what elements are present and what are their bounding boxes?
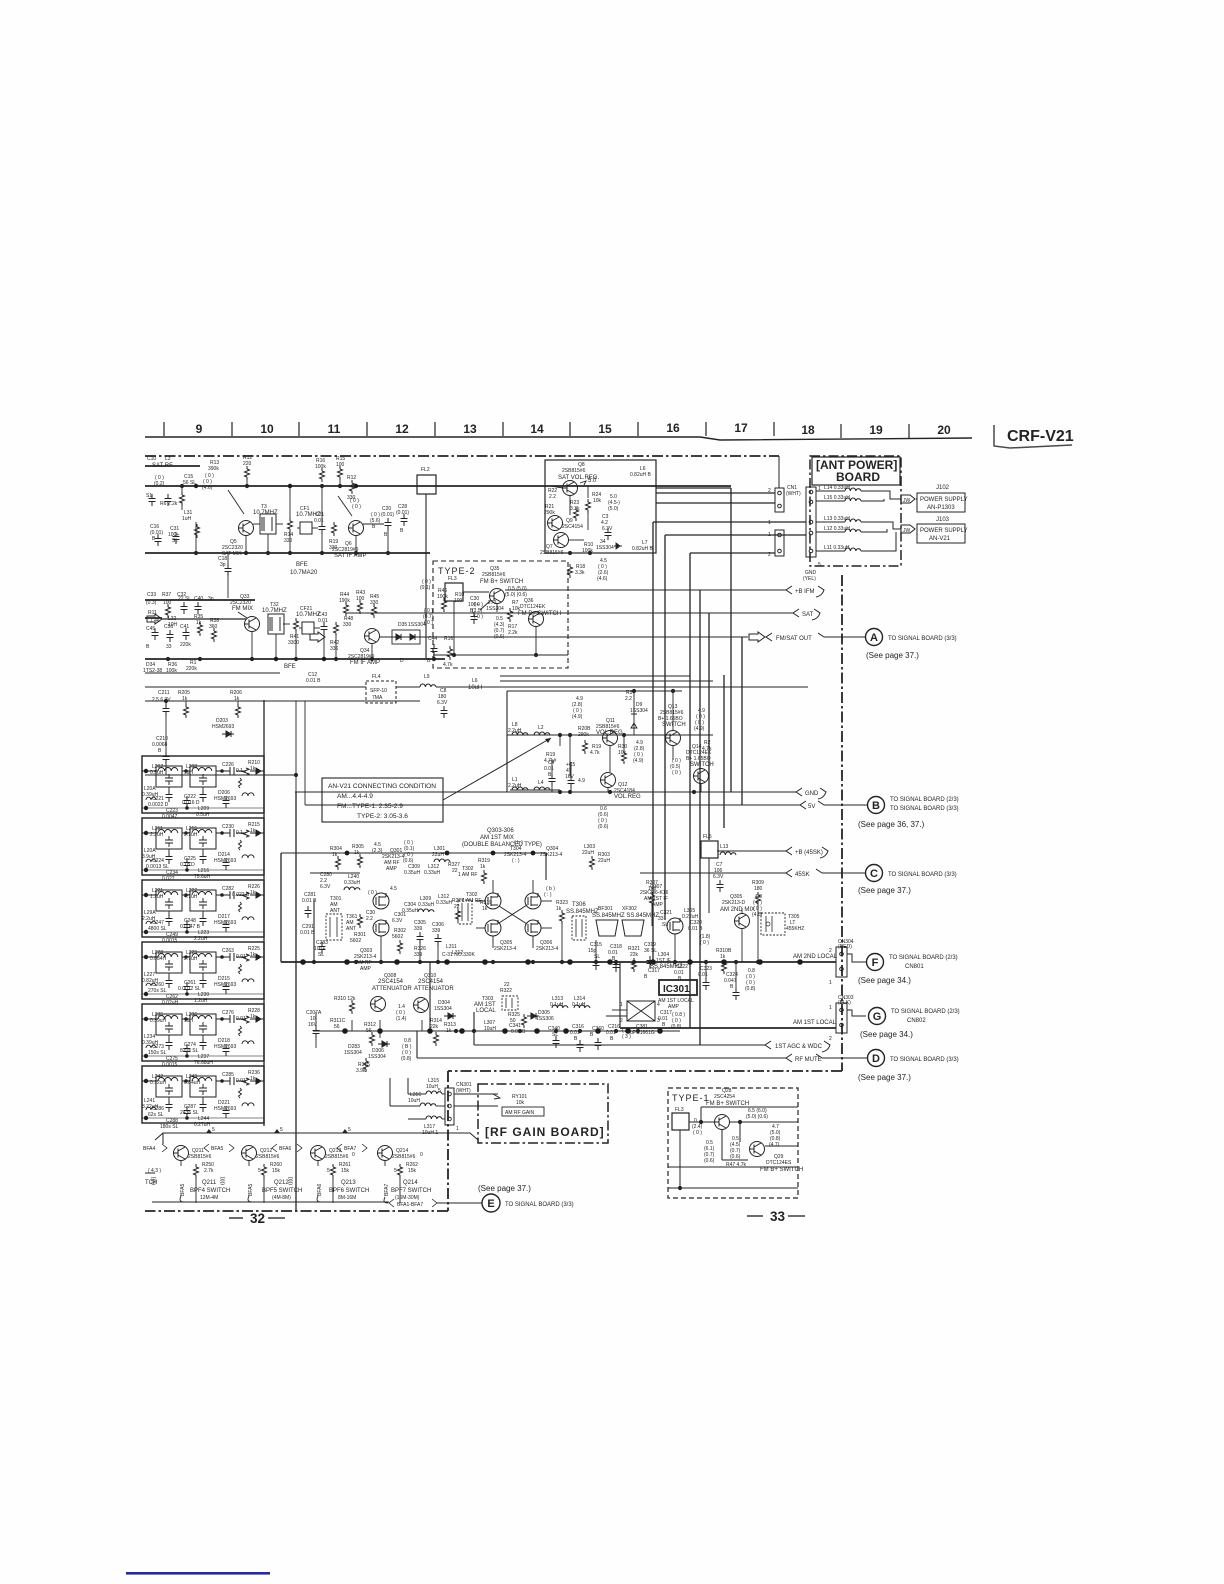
- filter block L221/L222: [142, 880, 264, 937]
- +B (45SK) / 45SK + circle C: [640, 847, 865, 877]
- svg-text:1k: 1k: [250, 766, 256, 772]
- svg-text:( 0 ): ( 0 ): [672, 770, 681, 776]
- svg-text:(((((: (((((: [288, 1176, 294, 1185]
- inductors L315 L316 L317: [426, 1091, 442, 1094]
- svg-text:R37: R37: [162, 592, 171, 598]
- node E to signal board: [482, 1194, 500, 1212]
- svg-text:339: 339: [414, 952, 423, 958]
- svg-text:0.27uH: 0.27uH: [194, 1122, 211, 1128]
- svg-text:SWITCH: SWITCH: [662, 722, 686, 728]
- svg-text:1k: 1k: [332, 852, 338, 858]
- svg-text:56: 56: [334, 1024, 340, 1030]
- svg-text:12: 12: [395, 422, 409, 436]
- svg-text:33: 33: [770, 1209, 786, 1224]
- svg-text:L2: L2: [538, 725, 544, 731]
- svg-text:SFP-10: SFP-10: [370, 688, 387, 694]
- svg-text:( b ): ( b ): [514, 840, 523, 846]
- svg-text:TO SIGNAL BOARD (3/3): TO SIGNAL BOARD (3/3): [505, 1202, 574, 1208]
- svg-text:11: 11: [328, 422, 341, 436]
- arrow plugs: [901, 495, 915, 533]
- svg-text:SAT RF: SAT RF: [152, 463, 173, 469]
- step vertical: [447, 1071, 449, 1211]
- node B to signal board: [868, 797, 885, 814]
- svg-text:A: A: [870, 632, 878, 644]
- svg-text:(See page 37.): (See page 37.): [478, 1184, 531, 1193]
- svg-text:HSM2693: HSM2693: [214, 796, 236, 802]
- svg-text:C211: C211: [158, 690, 170, 696]
- node A to signal board: [866, 629, 883, 646]
- transistor Q35 FM B+ SWITCH: [490, 589, 505, 604]
- svg-text:1SS304: 1SS304: [344, 1050, 362, 1056]
- svg-text:AMP: AMP: [360, 966, 372, 972]
- svg-text:10uH: 10uH: [408, 1098, 420, 1104]
- svg-text:2SB815#6: 2SB815#6: [482, 572, 506, 578]
- svg-text:0.0015: 0.0015: [162, 1062, 178, 1068]
- FET Q307 AM 1ST IF AMP: [667, 918, 683, 934]
- svg-text:BFA4: BFA4: [143, 1146, 155, 1152]
- node G to signal board: [869, 1008, 886, 1025]
- svg-text:CN801: CN801: [905, 964, 924, 970]
- svg-text:L14 0.33uH: L14 0.33uH: [824, 485, 850, 491]
- svg-text:Q211: Q211: [202, 1180, 217, 1186]
- svg-text:D: D: [400, 658, 404, 664]
- svg-text:9: 9: [196, 422, 203, 436]
- POWER SUPPLY AN-P1303 box J102: [917, 493, 965, 512]
- svg-text:100: 100: [336, 462, 345, 468]
- svg-text:R322: R322: [500, 988, 512, 994]
- filter FL3 (TYPE-1): [672, 1113, 689, 1130]
- svg-text:2SC4254: 2SC4254: [714, 1094, 735, 1100]
- svg-text:AM 1ST MIX: AM 1ST MIX: [480, 835, 514, 841]
- svg-text:J103: J103: [936, 517, 950, 523]
- svg-text:TYPE-2: 3.05-3.6: TYPE-2: 3.05-3.6: [357, 813, 408, 820]
- svg-text:0.01: 0.01: [314, 518, 324, 524]
- svg-text:0.35uH: 0.35uH: [402, 908, 419, 914]
- svg-text:BPF5 SWITCH: BPF5 SWITCH: [262, 1188, 302, 1194]
- svg-text:0.39uH: 0.39uH: [142, 792, 159, 798]
- svg-text:BPF6 SWITCH: BPF6 SWITCH: [329, 1188, 369, 1194]
- filter block L207/L208: [142, 756, 264, 813]
- svg-text:2.7uH: 2.7uH: [184, 956, 198, 962]
- svg-text:360: 360: [209, 624, 218, 630]
- svg-text:4.7k: 4.7k: [702, 746, 712, 752]
- svg-text:1SS304: 1SS304: [630, 708, 648, 714]
- svg-text:AN-V21: AN-V21: [929, 536, 951, 542]
- svg-text:56: 56: [366, 1028, 372, 1034]
- svg-text:HSM2693: HSM2693: [214, 1044, 236, 1050]
- svg-text:0: 0: [420, 1152, 423, 1158]
- svg-text:2: 2: [620, 1018, 623, 1024]
- svg-text:AM 2ND LOCAL: AM 2ND LOCAL: [793, 954, 838, 960]
- svg-text:FL4: FL4: [372, 674, 381, 680]
- svg-text:(4.6): (4.6): [202, 485, 213, 491]
- svg-text:AN-P1303: AN-P1303: [927, 505, 955, 511]
- svg-text:AM 1ST LOCAL: AM 1ST LOCAL: [793, 1020, 837, 1026]
- R323 T306: [560, 910, 565, 924]
- svg-text:HSM2693: HSM2693: [214, 1106, 236, 1112]
- transistor Q6 SAT IF AMP: [349, 521, 364, 536]
- svg-text:1k: 1k: [250, 828, 256, 834]
- svg-text:FL5: FL5: [703, 834, 712, 840]
- inductors L8 L2: [512, 732, 528, 735]
- junction dot bus: [503, 1029, 507, 1033]
- svg-text:SAT IF AMP: SAT IF AMP: [334, 553, 366, 559]
- svg-text:13: 13: [463, 422, 477, 436]
- svg-text:33: 33: [166, 644, 172, 650]
- svg-text:2436 SL: 2436 SL: [180, 1110, 199, 1116]
- svg-text:BFA1-BFA7: BFA1-BFA7: [397, 1202, 423, 1208]
- svg-text:(WHT): (WHT): [786, 491, 801, 497]
- svg-text:330: 330: [343, 622, 352, 628]
- FM/SAT OUT with open arrow and circle A: [380, 632, 866, 642]
- svg-text:XF302: XF302: [622, 906, 637, 912]
- svg-text:1.2uH: 1.2uH: [150, 894, 164, 900]
- svg-text:3300: 3300: [288, 640, 299, 646]
- svg-text:FM...TYPE-1: 2.35-2.9: FM...TYPE-1: 2.35-2.9: [337, 803, 403, 810]
- svg-text:5: 5: [212, 1127, 215, 1133]
- svg-text:1: 1: [456, 1126, 459, 1132]
- svg-text:190k: 190k: [339, 598, 350, 604]
- svg-text:TYPE-1: TYPE-1: [672, 1093, 710, 1103]
- svg-text:C-31 NO.330K: C-31 NO.330K: [442, 952, 475, 958]
- svg-text:22: 22: [452, 868, 458, 874]
- svg-text:6.3V: 6.3V: [437, 700, 448, 706]
- svg-text:RF MUTE: RF MUTE: [795, 1057, 822, 1063]
- svg-text:1SS304: 1SS304: [596, 545, 614, 551]
- svg-text:6.3V: 6.3V: [392, 918, 403, 924]
- bottom right border: [448, 1070, 842, 1072]
- svg-text:2SK213-4: 2SK213-4: [494, 946, 516, 952]
- svg-text:2.2: 2.2: [366, 916, 373, 922]
- svg-text:FM MIX: FM MIX: [232, 606, 253, 612]
- svg-text:BFA5: BFA5: [248, 1184, 254, 1196]
- AM 2ND LOCAL rail + CN304 + circle F: [281, 961, 836, 963]
- svg-text:19: 19: [869, 423, 883, 437]
- svg-text:( : ): ( : ): [544, 892, 552, 898]
- svg-text:2SB815#6: 2SB815#6: [256, 1154, 280, 1160]
- svg-text:0.39uH: 0.39uH: [150, 1018, 167, 1024]
- transistor Q14 DTC124EK: [694, 769, 709, 784]
- svg-text:B: B: [872, 800, 880, 812]
- svg-text:2.7uH: 2.7uH: [184, 832, 198, 838]
- svg-text:D: D: [872, 1053, 880, 1065]
- svg-text:1 AM RF: 1 AM RF: [458, 872, 477, 878]
- svg-text:(4.6): (4.6): [597, 576, 608, 582]
- svg-text:BFA6: BFA6: [317, 1184, 323, 1196]
- svg-text:( 0 ): ( 0 ): [700, 940, 709, 946]
- svg-text:0.0047: 0.0047: [162, 814, 178, 820]
- svg-text:BFA6: BFA6: [279, 1146, 291, 1152]
- svg-text:1k: 1k: [182, 696, 188, 702]
- svg-text:0.022 B: 0.022 B: [232, 892, 250, 898]
- svg-text:4.7k#: 4.7k#: [544, 758, 556, 764]
- svg-text:TO SIGNAL BOARD (2/3): TO SIGNAL BOARD (2/3): [889, 955, 958, 961]
- svg-text:L4: L4: [538, 780, 544, 786]
- transistor Q11 VOL.REG: [603, 731, 618, 746]
- svg-text:4.7k: 4.7k: [590, 750, 600, 756]
- FET Q304/Q305 AM 1ST MIX pair: [485, 893, 501, 909]
- svg-text:7.4k: 7.4k: [150, 618, 160, 624]
- svg-text:HSM2693: HSM2693: [212, 724, 234, 730]
- svg-text:15: 15: [598, 422, 612, 436]
- IC301 AM 1ST LOCAL AMP: [659, 980, 697, 995]
- svg-text:0.01 B: 0.01 B: [306, 678, 321, 684]
- svg-text:1k: 1k: [234, 696, 240, 702]
- svg-text:1k: 1k: [250, 890, 256, 896]
- svg-text:FM IF AMP: FM IF AMP: [350, 660, 380, 666]
- diode D35 1SS304: [392, 634, 404, 640]
- svg-text:IC301: IC301: [663, 984, 690, 995]
- svg-text:L6: L6: [472, 678, 478, 684]
- inductor L11 0.33uH: [845, 548, 861, 551]
- svg-text:Q212: Q212: [274, 1180, 289, 1186]
- svg-text:390k: 390k: [208, 466, 219, 472]
- verticals joining rails: [182, 478, 388, 553]
- svg-text:AMP: AMP: [652, 902, 664, 908]
- ceramic filter XF302 SS.845MHz: [622, 920, 644, 936]
- frame rails: [281, 853, 680, 1058]
- node D to signal board: [868, 1050, 885, 1067]
- svg-text:2: 2: [829, 1036, 832, 1042]
- svg-text:J102: J102: [936, 485, 950, 491]
- svg-text:C230: C230: [222, 824, 234, 830]
- svg-text:220k: 220k: [180, 642, 191, 648]
- inductors L13 L12 0.33uH: [845, 519, 861, 522]
- RF MUTE + circle D: [417, 1054, 867, 1062]
- svg-text:(16M-30M): (16M-30M): [395, 1195, 420, 1201]
- svg-text:0.084H: 0.084H: [150, 956, 167, 962]
- svg-text:4.7uH: 4.7uH: [184, 894, 198, 900]
- svg-text:0.1: 0.1: [236, 830, 243, 836]
- svg-text:12M-4M: 12M-4M: [200, 1195, 218, 1201]
- svg-text:4800 SL: 4800 SL: [148, 926, 167, 932]
- svg-text:BPF7 SWITCH: BPF7 SWITCH: [391, 1188, 431, 1194]
- connector CN301 (WHT): [445, 1088, 454, 1125]
- svg-text:L13: L13: [720, 844, 729, 850]
- inductors L14 L15 0.33uH: [845, 488, 861, 491]
- svg-text:62s SL: 62s SL: [148, 1112, 164, 1118]
- svg-text:FM/SAT OUT: FM/SAT OUT: [776, 636, 812, 642]
- svg-text:10H: 10H: [168, 622, 178, 628]
- svg-text:(0.6): (0.6): [730, 1154, 741, 1160]
- svg-text:0.01: 0.01: [698, 972, 708, 978]
- transistors Q211 Q212 BPF switches: [174, 1146, 189, 1161]
- RF GAIN BOARD outline: [478, 1084, 608, 1143]
- svg-text:0.82uH: 0.82uH: [142, 978, 159, 984]
- transformer T302 dashed: [458, 900, 472, 924]
- transistor Q9 2SC4154: [548, 516, 563, 531]
- svg-text:TO SIGNAL BOARD (2/3): TO SIGNAL BOARD (2/3): [890, 797, 959, 803]
- svg-text:uPC1661G: uPC1661G: [630, 1030, 655, 1036]
- svg-text:( 0 ): ( 0 ): [474, 614, 483, 620]
- svg-text:5602: 5602: [350, 938, 361, 944]
- svg-text:1k: 1k: [480, 864, 486, 870]
- svg-text:SWITCH: SWITCH: [690, 762, 714, 768]
- svg-text:1k: 1k: [250, 952, 256, 958]
- svg-text:SS.845MHZ SS.845MHZ: SS.845MHZ SS.845MHZ: [592, 913, 659, 919]
- svg-text:5: 5: [438, 1088, 441, 1094]
- svg-text:0.33uH: 0.33uH: [436, 900, 453, 906]
- svg-text:C10: C10: [147, 456, 156, 462]
- svg-text:1uH: 1uH: [184, 1018, 194, 1024]
- filter block L228/L229: [142, 942, 264, 999]
- transistor Q8 SAT VOL.REG: [563, 481, 578, 496]
- svg-text:180s SL: 180s SL: [160, 1124, 179, 1130]
- svg-text:100: 100: [356, 596, 365, 602]
- svg-text:(4.9): (4.9): [694, 726, 705, 732]
- svg-text:L15 0.33uH: L15 0.33uH: [824, 495, 850, 501]
- board outline dash-dot: [810, 456, 901, 566]
- connector CN303 (BLK): [836, 1003, 847, 1033]
- svg-text:C45: C45: [146, 626, 155, 632]
- svg-text:20: 20: [937, 423, 951, 437]
- svg-text:C276: C276: [222, 1010, 234, 1016]
- svg-text:HSM2693: HSM2693: [214, 920, 236, 926]
- svg-text:1: 1: [829, 980, 832, 986]
- diode D203 HSM2693: [222, 731, 234, 737]
- misc dots on rails: [180, 484, 184, 488]
- blue footer line: [126, 1572, 270, 1575]
- svg-text:TO SIGNAL BOARD (3/3): TO SIGNAL BOARD (3/3): [890, 1057, 959, 1063]
- svg-text:2.2: 2.2: [625, 696, 632, 702]
- svg-text:1k: 1k: [720, 954, 726, 960]
- svg-text:0.35uH: 0.35uH: [404, 870, 421, 876]
- svg-text:(0.6): (0.6): [598, 824, 609, 830]
- svg-text:(See page 37.): (See page 37.): [858, 1073, 911, 1082]
- FET Q303 AM RF AMP: [373, 920, 389, 936]
- svg-text:0.84uH: 0.84uH: [184, 1080, 201, 1086]
- svg-text:TO SIGNAL BOARD (3/3): TO SIGNAL BOARD (3/3): [890, 806, 959, 812]
- svg-text:(WHT): (WHT): [456, 1088, 471, 1094]
- svg-text:1k: 1k: [446, 1028, 452, 1034]
- svg-text:CRF-V21: CRF-V21: [1007, 428, 1074, 445]
- filter FL5: [701, 841, 718, 858]
- svg-text:2.2k: 2.2k: [508, 630, 518, 636]
- svg-text:BFA7: BFA7: [384, 1184, 390, 1196]
- svg-text:AM...4.4-4.9: AM...4.4-4.9: [337, 793, 373, 800]
- svg-text:6.3V: 6.3V: [602, 526, 613, 532]
- svg-text:1SS304: 1SS304: [486, 606, 504, 612]
- svg-text:BF301: BF301: [598, 906, 613, 912]
- inductor L9: [420, 684, 436, 687]
- transistor Q33 FM MIX: [245, 617, 260, 632]
- svg-text:290k: 290k: [544, 510, 555, 516]
- svg-text:330: 330: [284, 538, 293, 544]
- svg-text:10k: 10k: [516, 1100, 525, 1106]
- svg-text:SL: SL: [594, 954, 600, 960]
- svg-text:( 0 ): ( 0 ): [352, 504, 361, 510]
- svg-text:2SC4154: 2SC4154: [378, 979, 404, 985]
- svg-text:16: 16: [666, 421, 680, 435]
- svg-text:2SC4154: 2SC4154: [562, 524, 583, 530]
- POWER SUPPLY AN-V21 box J103: [917, 524, 965, 543]
- svg-text:2SB815#6: 2SB815#6: [392, 1154, 416, 1160]
- transistor Q12 VOL.REG: [601, 773, 616, 788]
- svg-text:D35: D35: [398, 622, 407, 628]
- svg-text:10k: 10k: [593, 498, 602, 504]
- svg-text:C317: C317: [648, 968, 660, 974]
- svg-text:22 SL: 22 SL: [178, 596, 191, 602]
- svg-text:POWER SUPPLY: POWER SUPPLY: [920, 497, 968, 503]
- svg-text:DTC124EK: DTC124EK: [520, 604, 546, 610]
- svg-text:1: 1: [620, 1002, 623, 1008]
- svg-text:1SS304: 1SS304: [368, 1054, 386, 1060]
- svg-text:290k: 290k: [578, 732, 589, 738]
- svg-text:C285: C285: [222, 1072, 234, 1078]
- svg-text:FL3: FL3: [448, 576, 457, 582]
- svg-text:22uH: 22uH: [582, 850, 594, 856]
- dots on 962 rail: [312, 960, 316, 964]
- transistor Q29 DTC124ES: [750, 1142, 765, 1157]
- input open arrow: [147, 614, 162, 624]
- svg-text:2.2uH: 2.2uH: [508, 728, 522, 734]
- svg-text:0.82uH B: 0.82uH B: [632, 546, 654, 552]
- svg-text:C226: C226: [222, 762, 234, 768]
- transformer T303 AM 1ST LOCAL: [502, 996, 518, 1010]
- svg-text:22: 22: [504, 982, 510, 988]
- svg-text:(0.1): (0.1): [420, 585, 431, 591]
- svg-text:45SK: 45SK: [795, 872, 810, 878]
- svg-text:1SS304: 1SS304: [434, 1006, 452, 1012]
- arrow mid: [310, 632, 325, 642]
- svg-text:LOCAL: LOCAL: [476, 1008, 496, 1014]
- R44/R43/R45: [344, 602, 349, 616]
- svg-text:5: 5: [818, 562, 821, 568]
- svg-text:4.7k: 4.7k: [443, 662, 453, 668]
- svg-text:E: E: [487, 1198, 494, 1210]
- svg-text:R11: R11: [148, 610, 157, 616]
- svg-text:22uH: 22uH: [432, 852, 444, 858]
- svg-text:32: 32: [250, 1211, 265, 1226]
- svg-text:TYPE-2: TYPE-2: [438, 566, 476, 576]
- svg-text:76.68uH: 76.68uH: [194, 1060, 213, 1066]
- svg-text:FL3: FL3: [675, 1107, 684, 1113]
- svg-text:5: 5: [394, 1168, 397, 1174]
- svg-text:(0.8): (0.8): [401, 1056, 412, 1062]
- svg-text:+B (45SK): +B (45SK): [795, 850, 823, 856]
- svg-text:6.3V: 6.3V: [320, 884, 331, 890]
- svg-text:22uH: 22uH: [598, 858, 610, 864]
- transistor Q13 B+ switch: [666, 731, 681, 746]
- svg-text:0.18 D: 0.18 D: [180, 862, 195, 868]
- svg-text:1k: 1k: [250, 1014, 256, 1020]
- svg-text:3p: 3p: [208, 596, 214, 602]
- svg-text:10uH: 10uH: [468, 685, 482, 691]
- svg-text:22: 22: [454, 904, 460, 910]
- transistors Q213 Q214 BPF switches: [311, 1146, 326, 1161]
- svg-text:ATTENUATOR: ATTENUATOR: [414, 986, 454, 992]
- ruler scale strip: [145, 437, 972, 440]
- dots: [166, 657, 170, 661]
- svg-text:(0.2): (0.2): [154, 481, 165, 487]
- svg-text:2SK213-D: 2SK213-D: [722, 900, 745, 906]
- svg-text:0.01 B: 0.01 B: [300, 930, 315, 936]
- svg-text:BFE: BFE: [296, 562, 308, 568]
- svg-text:0.39uH: 0.39uH: [142, 1040, 159, 1046]
- svg-text:0.01: 0.01: [318, 618, 328, 624]
- svg-text:2SB815#6: 2SB815#6: [562, 468, 586, 474]
- svg-text:1k: 1k: [354, 850, 360, 856]
- svg-text:10.7MA20: 10.7MA20: [290, 570, 318, 576]
- svg-text:36 SL: 36 SL: [644, 948, 657, 954]
- svg-text:2SK213-4: 2SK213-4: [540, 852, 562, 858]
- svg-text:(5.0): (5.0): [608, 506, 619, 512]
- svg-text:FM B+ SWITCH: FM B+ SWITCH: [760, 1167, 803, 1173]
- svg-text:(4M-8M): (4M-8M): [272, 1195, 291, 1201]
- filter FL4: [366, 681, 396, 703]
- svg-text:3p: 3p: [220, 562, 226, 568]
- svg-text:(4.9): (4.9): [633, 758, 644, 764]
